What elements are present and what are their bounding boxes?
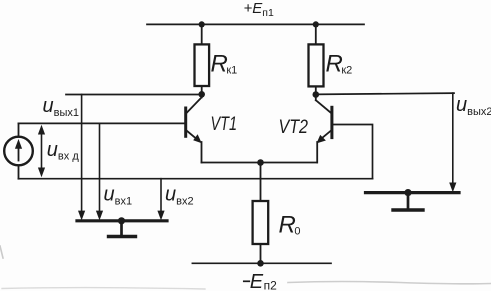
ground right (366, 189, 460, 210)
node common emitters (257, 159, 264, 166)
svg-text:uвх д: uвх д (47, 139, 80, 163)
arrow u_vh2 measurement (157, 179, 164, 221)
wire emitter node to R0 (260, 163, 262, 202)
node collector VT2 (313, 91, 320, 98)
ground left (77, 217, 167, 236)
svg-text:R0: R0 (279, 212, 301, 239)
label VT2 (279, 117, 309, 138)
label VT1 (211, 114, 238, 135)
node bottom rail (257, 260, 264, 267)
wire stub rail to Rk2 (315, 24, 317, 44)
arrow u_vyh1 measurement (78, 95, 85, 221)
label u_vh_d (47, 139, 80, 163)
node collector VT1 (198, 91, 205, 98)
svg-text:Rк1: Rк1 (211, 51, 238, 78)
arrow u_vh1 measurement (96, 123, 103, 220)
svg-text:VT2: VT2 (279, 117, 309, 138)
label u_vyh2 (456, 94, 491, 118)
wire output 1 (collector VT1 line) (66, 94, 202, 96)
current source I (4, 123, 33, 178)
transistor VT2 (316, 95, 373, 179)
svg-text:uвых1: uвых1 (43, 95, 80, 119)
svg-text:uвх1: uвх1 (104, 184, 133, 208)
svg-text:Rк2: Rк2 (326, 51, 353, 78)
wire stub rail to Rk1 (201, 24, 203, 44)
label +Ep1 (244, 0, 274, 19)
arrow u_vyh2 measurement (449, 93, 456, 192)
label u_vyh1 (43, 95, 80, 119)
label R0 (279, 212, 301, 239)
wire Rk2 bottom to collector node (315, 86, 317, 94)
label u_vh2 (165, 184, 194, 208)
wire common emitter rail (202, 162, 318, 164)
label -Ep2 (244, 271, 277, 291)
svg-text:+Eп1: +Eп1 (244, 0, 274, 19)
arrow u_vh_d double measurement (38, 125, 45, 177)
wire top supply rail (147, 23, 364, 25)
resistor R0 (253, 201, 269, 244)
label Rk1 (211, 51, 238, 78)
wire R0 bottom to negative rail (260, 244, 262, 263)
node top of Rk2 (313, 21, 319, 27)
svg-text:Eп2: Eп2 (250, 271, 277, 291)
svg-text:uвых2: uвых2 (456, 94, 491, 118)
svg-text:VT1: VT1 (211, 114, 238, 135)
resistor Rk1 (195, 44, 210, 86)
wire input line 2 (bottom input line) (19, 178, 373, 180)
wire Rk1 bottom to collector node (201, 86, 203, 94)
wire input line 1 (to VT1 base) (19, 122, 186, 124)
node top of Rk1 (199, 21, 205, 27)
wire bottom supply rail (192, 262, 331, 264)
label Rk2 (326, 51, 353, 78)
resistor Rk2 (309, 44, 324, 86)
svg-text:uвх2: uвх2 (165, 184, 194, 208)
transistor VT1 (186, 94, 202, 162)
wire output 2 (collector VT2 line) (316, 93, 454, 94)
label u_vh1 (104, 184, 133, 208)
